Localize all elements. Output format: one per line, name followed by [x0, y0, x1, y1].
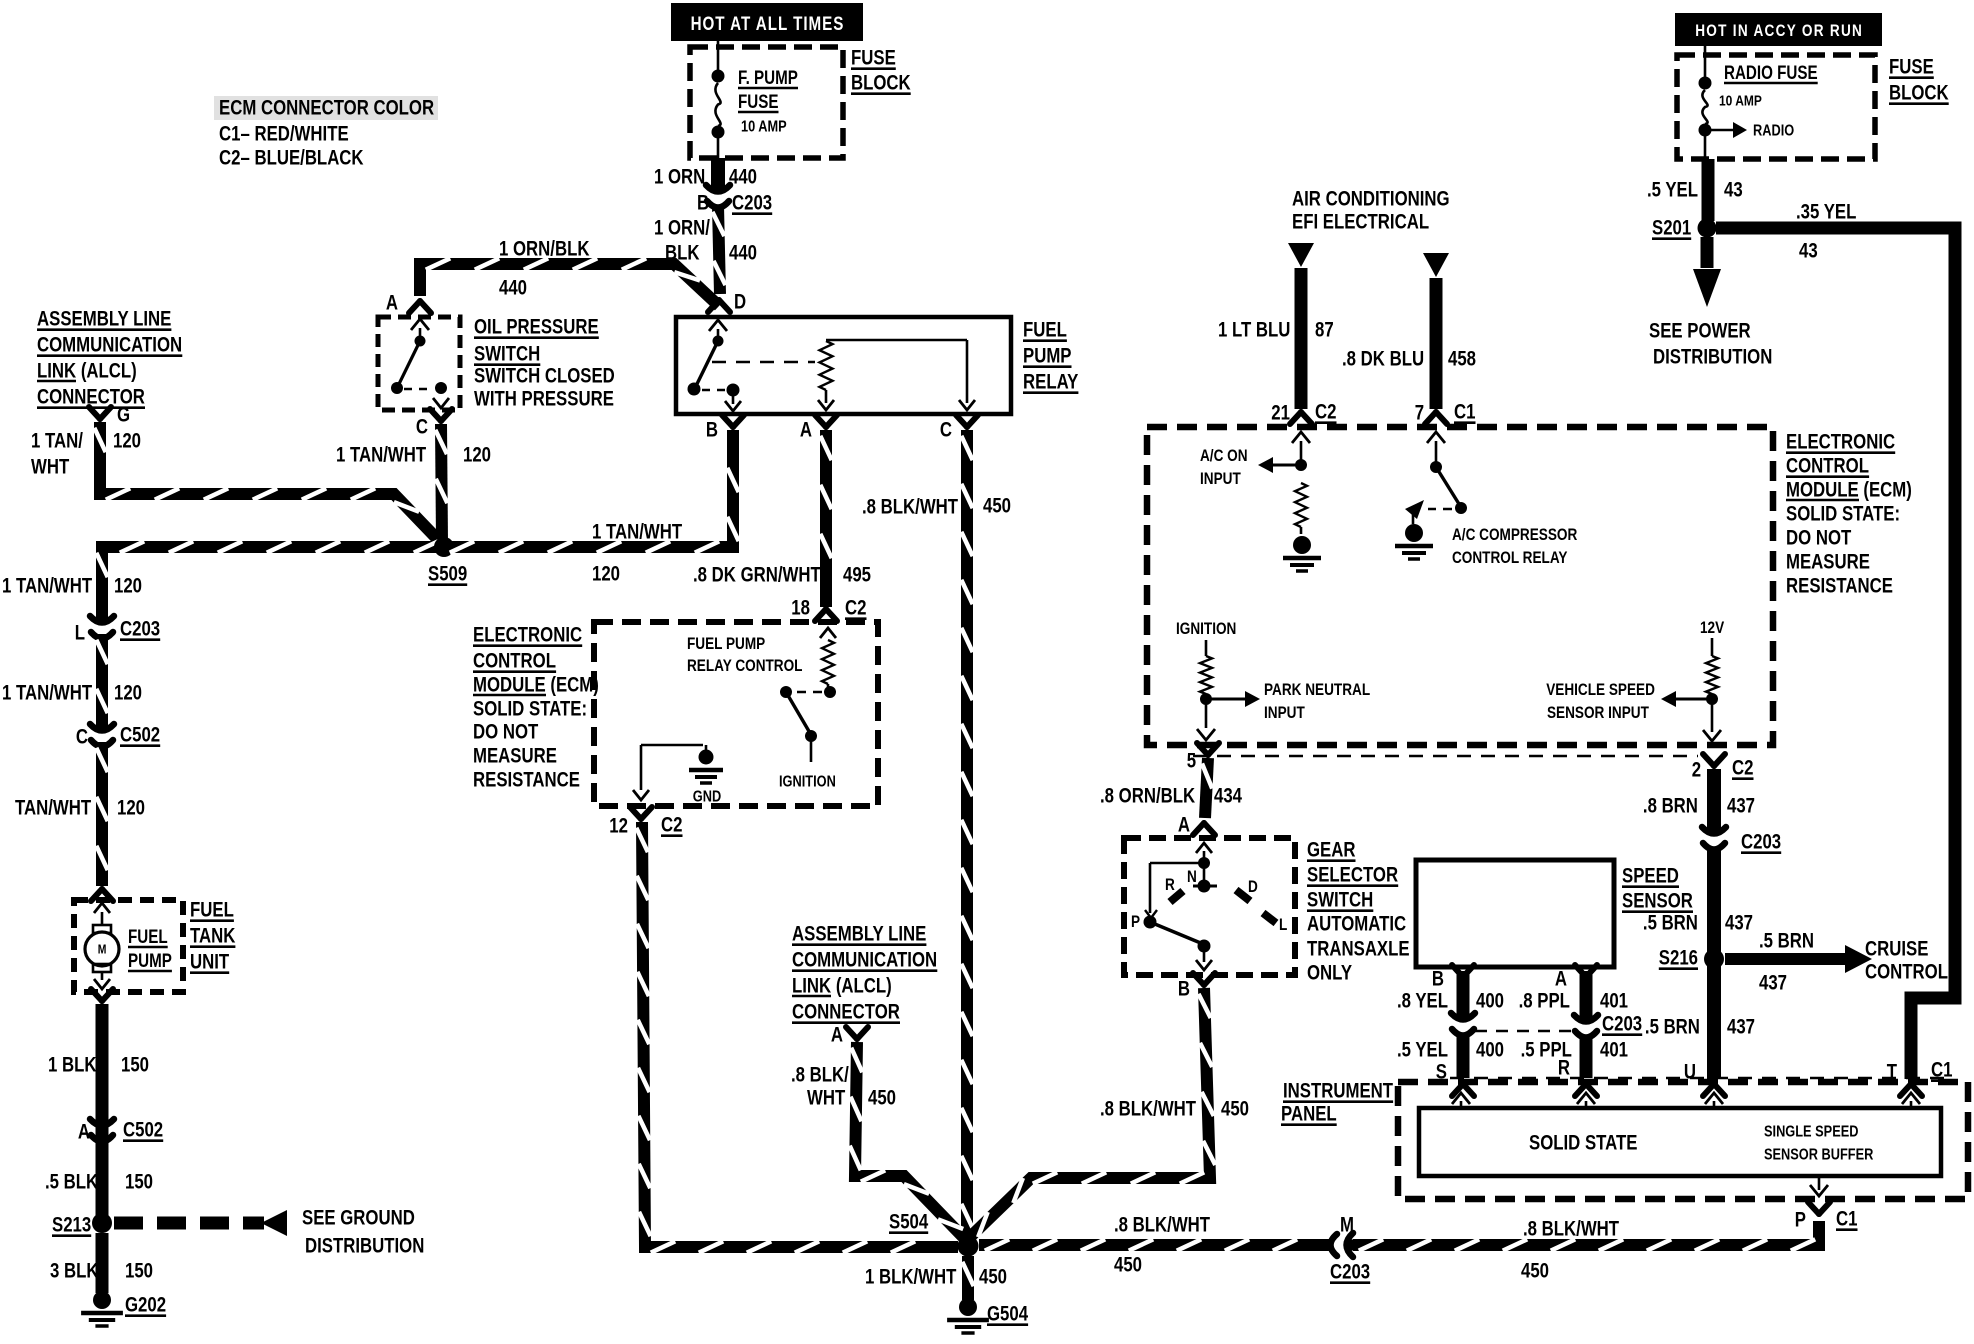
terminal C fuel pump relay — [940, 415, 978, 442]
svg-text:RELAY: RELAY — [1023, 371, 1079, 394]
wire 401 PPL speed sensor A to C203 — [1580, 971, 1593, 1018]
svg-text:SEE GROUND: SEE GROUND — [302, 1207, 415, 1230]
terminal C oil pressure switch — [416, 409, 452, 439]
wire 120 TAN/WHT S509 to relay B — [444, 430, 739, 553]
connector C203 speed B (in-line) — [1451, 1010, 1475, 1042]
svg-text:150: 150 — [125, 1171, 153, 1194]
svg-text:BLOCK: BLOCK — [1889, 82, 1949, 105]
svg-text:G: G — [117, 404, 130, 427]
svg-text:HOT AT ALL TIMES: HOT AT ALL TIMES — [691, 12, 845, 34]
wire 120 TAN/WHT switch C to S509 — [435, 424, 447, 542]
wire 437 BRN S216 to cruise control — [1725, 945, 1872, 973]
svg-text:.8 DK GRN/WHT: .8 DK GRN/WHT — [693, 564, 821, 587]
svg-text:FUSE: FUSE — [1889, 56, 1934, 79]
ECM relay control dashed box — [594, 622, 878, 806]
label FUEL PUMP (in tank) — [128, 925, 172, 971]
svg-text:C1: C1 — [1931, 1059, 1953, 1082]
C203 link line (speed wires) — [1475, 1030, 1574, 1032]
splice S201 — [1652, 217, 1717, 240]
A/C compressor control relay contacts — [1395, 432, 1467, 559]
svg-text:INPUT: INPUT — [1264, 704, 1305, 723]
svg-text:10 AMP: 10 AMP — [741, 118, 787, 136]
svg-text:IGNITION: IGNITION — [1176, 620, 1236, 639]
fuse block (F. PUMP) dashed box — [690, 47, 843, 158]
svg-text:MODULE (ECM): MODULE (ECM) — [473, 674, 599, 697]
svg-text:C2: C2 — [1315, 401, 1336, 424]
connector C203 BRN (in-line) — [1702, 824, 1781, 856]
svg-text:.8 BLK/WHT: .8 BLK/WHT — [1100, 1098, 1196, 1121]
splice S504 — [889, 1211, 979, 1257]
svg-text:CONTROL: CONTROL — [473, 650, 556, 673]
svg-text:C: C — [76, 726, 88, 749]
wire 400 .5 YEL C203 to IP S — [1457, 1034, 1470, 1078]
svg-text:S: S — [1436, 1061, 1447, 1084]
svg-text:120: 120 — [114, 575, 142, 598]
svg-text:.5 BRN: .5 BRN — [1643, 912, 1698, 935]
wire 437 BRN ECM 2 to IP U — [1707, 769, 1721, 1079]
svg-text:450: 450 — [1521, 1260, 1549, 1283]
svg-text:.8 BLK/: .8 BLK/ — [791, 1064, 849, 1087]
wire 434 ORN/BLK ECM 5 to gear selector A — [1202, 758, 1212, 818]
terminal R instrument panel — [1558, 1057, 1597, 1096]
svg-text:DO NOT: DO NOT — [1786, 527, 1852, 550]
terminal A oil pressure switch — [386, 292, 431, 315]
svg-text:S504: S504 — [889, 1211, 929, 1234]
svg-text:TANK: TANK — [190, 925, 236, 948]
wire 43 YEL fuse to S201 — [1702, 159, 1715, 221]
svg-text:150: 150 — [121, 1054, 149, 1077]
svg-text:C1: C1 — [1454, 401, 1476, 424]
terminal G ALCL connector — [89, 404, 130, 427]
label A/C COMPRESSOR CONTROL RELAY — [1452, 526, 1577, 568]
splice S509 — [428, 537, 467, 586]
svg-text:.35 YEL: .35 YEL — [1796, 201, 1857, 224]
svg-text:.8 BRN: .8 BRN — [1643, 795, 1698, 818]
svg-text:C: C — [940, 419, 952, 442]
svg-text:CONTROL: CONTROL — [1865, 961, 1948, 984]
terminal B gear selector — [1178, 973, 1215, 1001]
wire 440 ORN fuse to C203 — [711, 158, 725, 190]
connector C203 pin B (in-line) — [706, 182, 730, 214]
terminal fuel tank unit (top) — [91, 889, 113, 901]
label IGNITION (big ECM) — [1176, 620, 1236, 639]
speed sensor box — [1416, 860, 1614, 967]
label C C502 — [76, 724, 160, 749]
svg-text:.5 BLK: .5 BLK — [45, 1171, 98, 1194]
label .8 YEL 400 — [1397, 990, 1504, 1013]
svg-text:VEHICLE SPEED: VEHICLE SPEED — [1546, 681, 1655, 700]
wire 150 BLK fuel pump to S213 — [96, 1004, 109, 1223]
svg-text:1 TAN/WHT: 1 TAN/WHT — [2, 575, 92, 598]
fuel pump relay box — [676, 317, 1011, 414]
svg-text:C203: C203 — [732, 192, 772, 215]
svg-text:1 TAN/: 1 TAN/ — [31, 430, 84, 453]
svg-text:FUSE: FUSE — [738, 90, 779, 112]
label 1 ORN/BLK 440 — [499, 238, 590, 300]
svg-text:RELAY CONTROL: RELAY CONTROL — [687, 657, 802, 676]
label B C203 — [697, 192, 772, 215]
label SOLID STATE — [1529, 1132, 1637, 1155]
svg-text:2: 2 — [1692, 759, 1701, 782]
svg-text:.8 PPL: .8 PPL — [1519, 990, 1571, 1013]
svg-text:R: R — [1558, 1057, 1570, 1080]
A/C on input circuit — [1258, 432, 1321, 571]
svg-text:C2: C2 — [845, 597, 866, 620]
svg-text:C1: C1 — [1836, 1208, 1858, 1231]
wire 120 TAN/WHT C502 to fuel tank unit — [96, 742, 107, 886]
fuse block (RADIO) dashed box — [1677, 55, 1875, 159]
label SINGLE SPEED SENSOR BUFFER — [1764, 1123, 1874, 1164]
svg-text:SELECTOR: SELECTOR — [1307, 864, 1398, 887]
label ASSEMBLY LINE COMMUNICATION LINK (ALCL) CONNECTOR (mid) — [792, 923, 937, 1024]
svg-text:CONTROL: CONTROL — [1786, 455, 1869, 478]
relay coil — [712, 340, 975, 410]
svg-text:C203: C203 — [1602, 1013, 1642, 1036]
svg-text:L: L — [75, 622, 86, 645]
label FUSE BLOCK — [851, 47, 911, 95]
svg-text:COMMUNICATION: COMMUNICATION — [792, 949, 937, 972]
label C203 (speed wires) — [1602, 1013, 1642, 1036]
svg-text:434: 434 — [1214, 785, 1242, 808]
svg-text:.5 YEL: .5 YEL — [1647, 179, 1698, 202]
svg-text:1 TAN/WHT: 1 TAN/WHT — [2, 682, 92, 705]
svg-text:RADIO FUSE: RADIO FUSE — [1724, 61, 1818, 83]
svg-text:1 TAN/WHT: 1 TAN/WHT — [592, 521, 682, 544]
svg-text:SINGLE SPEED: SINGLE SPEED — [1764, 1123, 1858, 1141]
label .8 BLK/WHT 450 (right of C203 M) — [1521, 1218, 1619, 1283]
label OIL PRESSURE SWITCH — [474, 316, 615, 411]
svg-text:RADIO: RADIO — [1753, 122, 1794, 140]
svg-text:C2: C2 — [1732, 757, 1753, 780]
svg-text:18: 18 — [791, 597, 810, 620]
label RADIO FUSE 10 AMP — [1719, 61, 1818, 109]
label .5 BLK 150 — [45, 1171, 153, 1194]
svg-text:SWITCH: SWITCH — [1307, 889, 1373, 912]
svg-text:MODULE (ECM): MODULE (ECM) — [1786, 479, 1912, 502]
svg-text:OIL PRESSURE: OIL PRESSURE — [474, 316, 599, 339]
connector C502 pin C (in-line) — [90, 721, 114, 753]
relay switch contacts — [688, 320, 742, 411]
oil pressure switch contacts — [391, 319, 449, 408]
svg-text:.8 BLK/WHT: .8 BLK/WHT — [862, 496, 958, 519]
svg-text:U: U — [1684, 1061, 1696, 1084]
svg-text:ELECTRONIC: ELECTRONIC — [1786, 431, 1895, 454]
label 1 LT BLU 87 — [1218, 319, 1334, 342]
svg-text:458: 458 — [1448, 348, 1476, 371]
label .8 BLK/WHT 450 (relay C) — [862, 495, 1011, 519]
gear selector contacts — [1144, 843, 1277, 970]
terminal 7 C1 ECM — [1415, 401, 1476, 425]
label .8 BLK/WHT 450 (left of C203 M) — [1114, 1214, 1210, 1277]
label A/C ON INPUT — [1200, 447, 1248, 489]
svg-text:120: 120 — [117, 797, 145, 820]
svg-text:S216: S216 — [1659, 947, 1698, 970]
svg-text:ASSEMBLY LINE: ASSEMBLY LINE — [792, 923, 926, 946]
svg-text:150: 150 — [125, 1260, 153, 1283]
park neutral input circuit — [1197, 640, 1260, 740]
wire 440 ORN/BLK C203 to relay D — [712, 206, 725, 294]
label TAN/WHT 120 — [15, 797, 145, 820]
svg-text:C1– RED/WHITE: C1– RED/WHITE — [219, 123, 349, 146]
svg-text:N: N — [1187, 868, 1197, 887]
instrument panel dashed box — [1398, 1082, 1968, 1199]
svg-text:SENSOR INPUT: SENSOR INPUT — [1547, 704, 1649, 723]
label INSTRUMENT PANEL — [1281, 1080, 1393, 1126]
label 12V — [1700, 619, 1725, 638]
svg-text:ECM CONNECTOR COLOR: ECM CONNECTOR COLOR — [219, 97, 434, 120]
svg-text:.8 BLK/WHT: .8 BLK/WHT — [1114, 1214, 1210, 1237]
svg-text:1 ORN: 1 ORN — [654, 166, 705, 189]
label .5 YEL 400 — [1397, 1039, 1504, 1062]
svg-text:UNIT: UNIT — [190, 951, 230, 974]
svg-text:B: B — [706, 419, 718, 442]
wire from feed to fuse — [717, 41, 720, 76]
svg-text:1 TAN/WHT: 1 TAN/WHT — [336, 444, 426, 467]
radio fuse 10A element — [1699, 77, 1712, 163]
svg-text:120: 120 — [463, 444, 491, 467]
svg-text:C203: C203 — [1330, 1261, 1370, 1284]
svg-text:P: P — [1131, 913, 1140, 932]
svg-text:437: 437 — [1727, 795, 1755, 818]
svg-text:M: M — [98, 943, 107, 957]
C1 link line (instrument panel) — [1450, 1077, 1946, 1079]
svg-text:P: P — [1795, 1209, 1806, 1232]
label 1 TAN/WHT 120 (left col) — [2, 575, 142, 598]
svg-text:B: B — [697, 192, 709, 215]
terminal A gear selector — [1178, 814, 1215, 837]
svg-text:DISTRIBUTION: DISTRIBUTION — [1653, 346, 1772, 369]
svg-text:B: B — [1432, 968, 1444, 991]
terminal 2 C2 ECM — [1692, 754, 1754, 782]
wire to ground distribution (dashed) — [114, 1210, 287, 1236]
label .8 ORN/BLK 434 — [1100, 785, 1242, 808]
label SPEED SENSOR — [1622, 865, 1693, 913]
svg-text:F. PUMP: F. PUMP — [738, 66, 798, 88]
label .8 PPL 401 — [1519, 990, 1629, 1013]
svg-text:1 BLK/WHT: 1 BLK/WHT — [865, 1266, 957, 1289]
label SEE POWER DISTRIBUTION — [1649, 320, 1772, 369]
svg-text:SENSOR BUFFER: SENSOR BUFFER — [1764, 1146, 1874, 1164]
label .5 PPL 401 — [1521, 1039, 1629, 1062]
svg-text:INPUT: INPUT — [1200, 470, 1241, 489]
svg-text:MEASURE: MEASURE — [473, 745, 557, 768]
label 1 BLK 150 — [48, 1054, 149, 1077]
svg-text:S509: S509 — [428, 563, 467, 586]
fuel pump relay control driver — [780, 628, 836, 762]
svg-text:SWITCH CLOSED: SWITCH CLOSED — [474, 365, 615, 388]
label 1 TAN/WHT 120 — [336, 444, 491, 467]
svg-text:A/C COMPRESSOR: A/C COMPRESSOR — [1452, 526, 1577, 545]
svg-text:B: B — [1178, 978, 1190, 1001]
svg-text:450: 450 — [1221, 1098, 1249, 1121]
svg-text:SOLID STATE:: SOLID STATE: — [473, 698, 587, 721]
svg-text:A/C ON: A/C ON — [1200, 447, 1248, 466]
svg-text:1 ORN/: 1 ORN/ — [654, 217, 711, 240]
label 3 BLK 150 — [50, 1260, 153, 1283]
svg-text:CRUISE: CRUISE — [1865, 938, 1928, 961]
wire 450 BLK/WHT gear B to S504 — [966, 988, 1215, 1241]
svg-text:.8 BLK/WHT: .8 BLK/WHT — [1523, 1218, 1619, 1241]
label IGNITION (ECM) — [779, 773, 836, 791]
label .35 YEL 43 — [1796, 201, 1857, 263]
svg-text:SENSOR: SENSOR — [1622, 890, 1693, 913]
svg-text:DO NOT: DO NOT — [473, 721, 539, 744]
svg-text:.8 DK BLU: .8 DK BLU — [1342, 348, 1424, 371]
terminal fuel tank unit (bottom) — [91, 989, 113, 1001]
svg-text:.5 YEL: .5 YEL — [1397, 1039, 1448, 1062]
label FUSE BLOCK (right) — [1889, 56, 1949, 105]
label FUEL PUMP RELAY CONTROL — [687, 635, 802, 676]
svg-text:1 ORN/BLK: 1 ORN/BLK — [499, 238, 590, 261]
label FUEL PUMP RELAY — [1023, 319, 1079, 394]
svg-text:FUEL: FUEL — [190, 899, 234, 922]
svg-text:CONNECTOR: CONNECTOR — [792, 1001, 900, 1024]
label 1 TAN/ WHT 120 — [31, 430, 141, 479]
svg-text:120: 120 — [113, 430, 141, 453]
svg-text:FUSE: FUSE — [851, 47, 896, 70]
svg-text:CONTROL RELAY: CONTROL RELAY — [1452, 549, 1567, 568]
svg-text:495: 495 — [843, 564, 871, 587]
svg-text:A: A — [1555, 968, 1567, 991]
wire 495 DK GRN/WHT relay A to ECM 18 — [820, 430, 831, 607]
svg-text:437: 437 — [1759, 972, 1787, 995]
svg-text:D: D — [734, 291, 746, 314]
label .8 DK GRN/WHT 495 — [693, 564, 871, 587]
svg-text:43: 43 — [1799, 240, 1818, 263]
label M C203 — [1330, 1214, 1370, 1284]
label .5 BRN 437 (cruise) — [1759, 930, 1814, 995]
terminal 21 C2 ECM — [1271, 401, 1336, 425]
svg-text:3 BLK: 3 BLK — [50, 1260, 99, 1283]
wire S201 to power distribution — [1693, 237, 1721, 307]
svg-text:C502: C502 — [123, 1119, 163, 1142]
label .5 BRN 437 — [1643, 912, 1753, 935]
terminal T instrument panel — [1887, 1059, 1953, 1096]
svg-text:T: T — [1887, 1061, 1898, 1084]
label .5 YEL 43 — [1647, 179, 1743, 202]
terminal B fuel pump relay — [706, 415, 744, 442]
svg-text:DISTRIBUTION: DISTRIBUTION — [305, 1235, 424, 1258]
svg-text:401: 401 — [1600, 990, 1628, 1013]
label .8 BLK/WHT 450 (gear B) — [1100, 1098, 1249, 1121]
svg-text:120: 120 — [592, 563, 620, 586]
label AIR CONDITIONING EFI ELECTRICAL — [1292, 188, 1450, 234]
svg-text:440: 440 — [729, 242, 757, 265]
svg-text:450: 450 — [868, 1087, 896, 1110]
svg-text:A: A — [1178, 814, 1190, 837]
label VEHICLE SPEED SENSOR INPUT — [1546, 681, 1655, 723]
svg-text:SOLID STATE:: SOLID STATE: — [1786, 503, 1900, 526]
wire 450 BLK/WHT S504 to P (long run) — [979, 1221, 1819, 1251]
note ECM CONNECTOR COLOR — [214, 96, 438, 170]
ECM dashed box — [1147, 427, 1773, 745]
terminal S instrument panel — [1436, 1061, 1474, 1096]
svg-text:FUEL: FUEL — [128, 925, 168, 947]
label L C203 — [75, 618, 161, 645]
svg-text:A: A — [386, 292, 398, 315]
ground G504 — [947, 1298, 1028, 1333]
connector C502 pin A (in-line) — [90, 1116, 114, 1148]
fuse F.PUMP 10A element — [712, 70, 725, 162]
labels N R D P L gear positions — [1131, 868, 1287, 935]
svg-text:5: 5 — [1187, 750, 1197, 773]
label PARK NEUTRAL INPUT — [1264, 681, 1370, 723]
wire 458 DK BLU to ECM 7 — [1423, 253, 1449, 409]
svg-text:AIR CONDITIONING: AIR CONDITIONING — [1292, 188, 1450, 211]
svg-text:10 AMP: 10 AMP — [1719, 92, 1762, 109]
svg-text:HOT IN ACCY OR RUN: HOT IN ACCY OR RUN — [1695, 22, 1863, 41]
svg-text:C2– BLUE/BLACK: C2– BLUE/BLACK — [219, 147, 364, 170]
wire 43 .35 YEL S201 to T/C1 (right edge run) — [1716, 228, 1955, 1079]
ECM internal ground GND — [633, 745, 723, 806]
svg-text:COMMUNICATION: COMMUNICATION — [37, 334, 182, 357]
wire 450 BLK/WHT ECM 12 to S504 — [636, 822, 958, 1253]
svg-text:RESISTANCE: RESISTANCE — [473, 769, 580, 792]
label A C502 — [78, 1119, 163, 1144]
svg-text:AUTOMATIC: AUTOMATIC — [1307, 913, 1406, 936]
buffer input arrows — [1452, 1093, 1920, 1108]
terminal P C1 instrument panel — [1795, 1202, 1858, 1232]
label 1 TAN/WHT 120 — [2, 682, 142, 705]
svg-text:D: D — [1248, 878, 1258, 897]
label .5 BRN 437 (lower) — [1645, 1016, 1755, 1039]
svg-text:FUEL PUMP: FUEL PUMP — [687, 635, 765, 654]
svg-text:C203: C203 — [120, 618, 160, 641]
wire 440 ORN/BLK switch A to relay D — [420, 258, 719, 306]
svg-text:G202: G202 — [125, 1294, 166, 1317]
label 1 ORN 440 — [654, 166, 757, 189]
svg-text:.8 YEL: .8 YEL — [1397, 990, 1448, 1013]
wire 400 YEL speed sensor B to C203 — [1457, 971, 1470, 1016]
svg-text:437: 437 — [1727, 1016, 1755, 1039]
svg-text:LINK (ALCL): LINK (ALCL) — [37, 360, 137, 383]
svg-text:.8 ORN/BLK: .8 ORN/BLK — [1100, 785, 1195, 808]
svg-text:A: A — [78, 1121, 90, 1144]
svg-text:S213: S213 — [52, 1214, 91, 1237]
svg-text:12: 12 — [609, 815, 628, 838]
terminal U instrument panel — [1684, 1061, 1725, 1096]
label 1 BLK/WHT 450 — [865, 1266, 1007, 1289]
svg-text:450: 450 — [983, 495, 1011, 518]
label F. PUMP FUSE 10 AMP — [738, 66, 798, 136]
label GEAR SELECTOR SWITCH AUTOMATIC TRANSAXLE ONLY — [1307, 839, 1410, 985]
radio tap arrow — [1711, 122, 1794, 140]
svg-text:SWITCH: SWITCH — [474, 343, 540, 366]
label ASSEMBLY LINE COMMUNICATION LINK (ALCL) CONNECTOR — [37, 308, 182, 409]
connector C203 pin L (in-line) — [90, 613, 114, 645]
svg-text:FUEL: FUEL — [1023, 319, 1067, 342]
svg-text:ASSEMBLY LINE: ASSEMBLY LINE — [37, 308, 171, 331]
connector C203 pin M (in-line) — [1324, 1233, 1356, 1257]
svg-text:400: 400 — [1476, 990, 1504, 1013]
svg-text:WHT: WHT — [31, 456, 70, 479]
wire 450 BLK/WHT relay C to S504 — [961, 430, 972, 1238]
gear selector dashed box — [1124, 838, 1295, 975]
label ELECTRONIC CONTROL MODULE (ECM) SOLID STATE... — [473, 624, 599, 792]
oil pressure switch dashed box — [378, 317, 460, 410]
svg-text:PUMP: PUMP — [128, 949, 172, 971]
terminal A fuel pump relay — [800, 415, 837, 442]
wire 120 TAN/WHT S509 to left branch — [96, 541, 444, 621]
connector C203 speed A (in-line) — [1574, 1012, 1598, 1044]
svg-text:ELECTRONIC: ELECTRONIC — [473, 624, 582, 647]
svg-text:WHT: WHT — [807, 1087, 846, 1110]
svg-text:7: 7 — [1415, 402, 1424, 425]
svg-text:.5 BRN: .5 BRN — [1645, 1016, 1700, 1039]
terminal 18 C2 ECM — [791, 597, 866, 621]
fuel tank unit dashed box — [74, 900, 183, 992]
wire 150 BLK S213 to G202 — [96, 1233, 109, 1293]
